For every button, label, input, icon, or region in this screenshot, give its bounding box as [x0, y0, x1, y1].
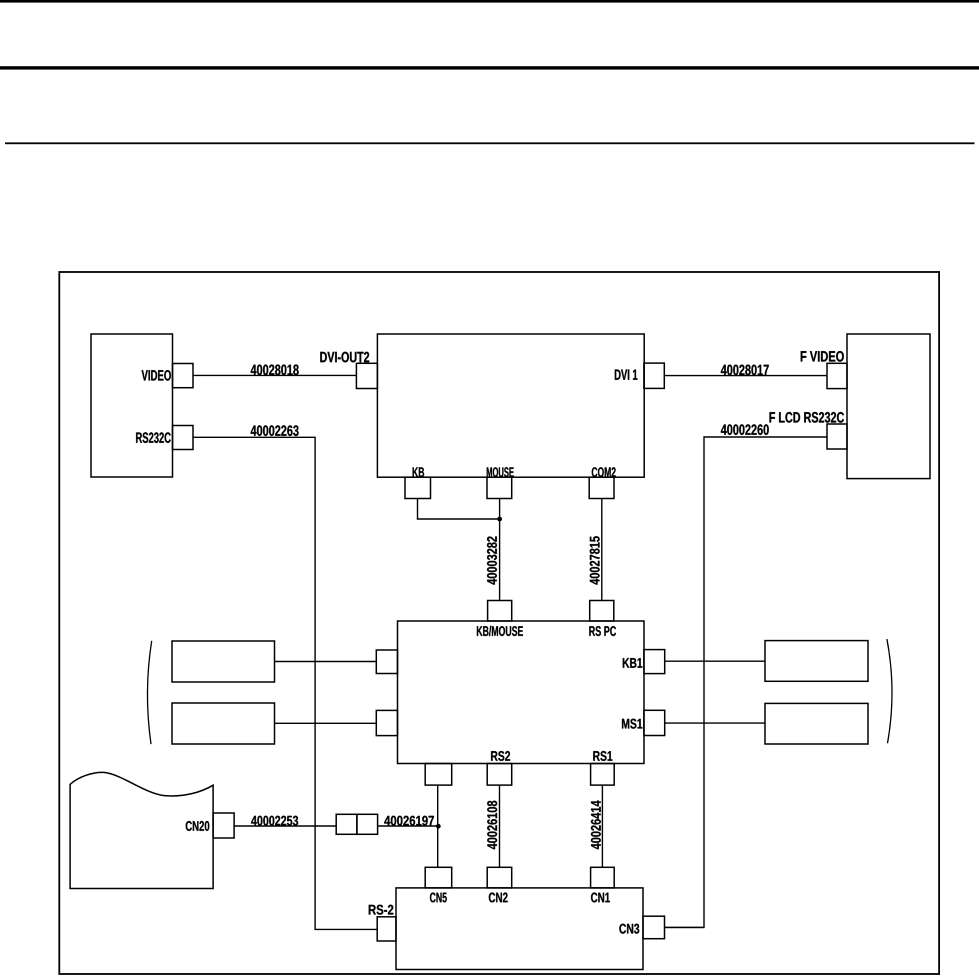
label RS PC [589, 626, 616, 636]
wire KB to MOUSE node [418, 499, 500, 520]
label KB [413, 467, 425, 477]
port RS-2 [377, 917, 396, 941]
label 40027815 cable [590, 536, 600, 584]
wire 40026197 adapter to CN5 net [378, 825, 438, 827]
label 40002260 [721, 424, 769, 435]
wire left-2 [275, 722, 377, 724]
port DVI1 [644, 363, 664, 388]
drawing frame [59, 272, 939, 974]
label KB1 [623, 658, 643, 668]
port CN20 [213, 813, 234, 838]
top rule thick [0, 0, 979, 3]
label CN1 [591, 893, 610, 903]
header rule thick [0, 66, 979, 69]
label 40002253 [251, 816, 298, 826]
port RS PC [590, 601, 614, 622]
block keyboard placeholder right-1 [765, 641, 868, 682]
label MS1 [622, 719, 642, 729]
port CN5 [425, 867, 452, 888]
label 40026197 [384, 816, 434, 826]
port COM2 [589, 477, 614, 498]
port VIDEO [173, 364, 194, 388]
label DVI-OUT2 [320, 352, 369, 363]
label 40026414 cable [591, 800, 601, 849]
wire 40028018 VIDEO to DVI-OUT2 [193, 374, 356, 376]
label RS2 [491, 751, 510, 761]
label KB/MOUSE [477, 626, 523, 636]
wire 40027815 COM2 to RS PC [601, 499, 603, 601]
port RS2 [487, 764, 512, 786]
wire 40026414 RS1 to CN1 [601, 785, 603, 867]
label F VIDEO [801, 351, 844, 362]
label 40028017 [721, 365, 769, 376]
label 40026108 cable [487, 801, 497, 849]
port bottom-1 [425, 764, 452, 786]
block U4 KB/mouse switch unit [398, 621, 645, 764]
junction node CN5 wire [436, 824, 441, 829]
wire bottom-1 to CN5 [437, 785, 439, 867]
wire CN3 riser [665, 926, 705, 928]
wire left-1 [275, 661, 377, 663]
label CN3 [619, 924, 639, 934]
label CN5 [430, 893, 447, 903]
inline adapter pair (double box) [336, 814, 357, 834]
port DVI-OUT2 [356, 363, 377, 388]
header rule thin [5, 142, 975, 144]
label RS232C [136, 432, 171, 443]
wire KB1 to right-1 [665, 660, 765, 662]
label CN2 [489, 893, 508, 903]
wire 40026108 RS2 to CN2 [499, 785, 501, 867]
block mouse placeholder right-2 [765, 703, 868, 744]
parenthesis arc left [147, 641, 151, 744]
port MS1 [644, 710, 665, 735]
wire 40003282 MOUSE to KB/MOUSE [499, 499, 501, 601]
label VIDEO [142, 370, 171, 381]
port F VIDEO [827, 363, 847, 388]
port CN1 [591, 867, 615, 888]
label RS-2 [369, 905, 394, 915]
port RS232C [173, 426, 194, 450]
port CN3 [643, 916, 665, 939]
wire MS1 to right-2 [665, 722, 765, 724]
block U1 video source unit [91, 334, 173, 477]
label COM2 [592, 467, 616, 477]
block keyboard placeholder left-1 [172, 641, 275, 682]
port KB [405, 477, 431, 498]
wire 40002263 RS232C to RS-2 [193, 437, 377, 929]
port left-1 [376, 650, 397, 674]
block CN20 sheet with torn top [70, 772, 213, 888]
port MOUSE [487, 477, 512, 498]
wire 40028017 DVI1 to F VIDEO [664, 375, 827, 377]
port CN2 [487, 867, 512, 888]
block U2 main controller unit [377, 334, 644, 477]
label 40003282 cable [487, 536, 497, 584]
port KB/MOUSE [488, 601, 512, 622]
port left-2 [376, 710, 397, 735]
label 40002263 [251, 425, 299, 436]
label CN20 [186, 821, 210, 831]
label MOUSE [487, 467, 514, 477]
block U3 F display unit [847, 334, 930, 479]
label DVI1 [615, 369, 638, 379]
label 40028018 [251, 365, 299, 376]
port RS1 [591, 764, 615, 786]
block mouse placeholder left-2 [172, 703, 275, 744]
block U5 bottom interface unit [396, 888, 643, 970]
wire 40002260 F LCD RS232C to CN3 [665, 437, 828, 927]
parenthesis arc right [887, 639, 892, 743]
wire 40002253 CN20 to adapter [234, 825, 336, 827]
label F LCD RS232C [770, 412, 844, 423]
junction node KB/MOUSE [497, 517, 502, 522]
port F LCD RS232C [827, 424, 847, 449]
label RS1 [593, 751, 612, 761]
port KB1 [644, 650, 665, 674]
